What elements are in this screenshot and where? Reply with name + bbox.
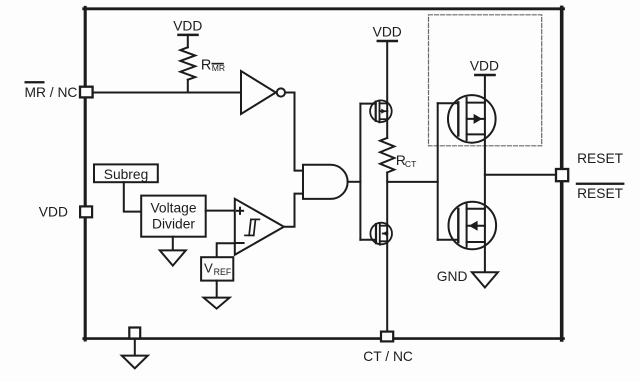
svg-text:RESET: RESET	[577, 186, 624, 201]
gate line (small mosfets)	[359, 104, 361, 240]
svg-text:RESET: RESET	[577, 151, 624, 166]
resistor RMR	[180, 47, 195, 79]
svg-text:CT / NC: CT / NC	[363, 349, 413, 364]
wire RCT junction to big gate line	[387, 181, 438, 183]
wire gate to Q3	[438, 102, 459, 104]
transistor Q1 (small PMOS)	[370, 100, 392, 122]
big gate line	[437, 103, 439, 240]
wire VREF to comparator minus input	[217, 243, 235, 257]
IC boundary box	[84, 7, 564, 340]
wire inverter output to AND input 1	[285, 93, 303, 171]
inverter U1	[241, 71, 276, 114]
wire Subreg to Voltage Divider	[124, 182, 141, 211]
vertical net Q3/Q4 drain-source rail	[484, 75, 486, 272]
VDD symbol above RCT	[373, 24, 402, 41]
transistor Q2 (small NMOS)	[370, 223, 392, 245]
label MR/NC	[25, 81, 78, 100]
resistor RCT	[380, 138, 394, 173]
label RCT	[396, 153, 417, 169]
minus sign	[236, 242, 243, 244]
wire MR pin to inverter input	[93, 92, 241, 94]
svg-text:CT: CT	[405, 159, 417, 169]
hysteresis symbol	[245, 219, 259, 235]
pin GND (bottom-left)	[129, 328, 140, 339]
wire gate to Q4	[438, 239, 459, 241]
transistor Q3 (big PMOS)	[448, 95, 496, 143]
vertical net VDD/RCT/CT	[386, 41, 388, 138]
svg-text:Divider: Divider	[152, 216, 195, 231]
AND gate U3	[303, 165, 348, 199]
wire comparator output to AND input 2	[284, 194, 303, 227]
block VREF	[201, 257, 233, 280]
svg-text:VDD: VDD	[173, 18, 202, 33]
svg-text:MR / NC: MR / NC	[25, 85, 78, 100]
dashed output-stage box	[429, 15, 542, 146]
plus sign	[237, 208, 243, 214]
ground GND below Q4	[472, 272, 498, 287]
wire AND output to gate line	[348, 181, 361, 183]
svg-text:Subreg: Subreg	[104, 167, 149, 182]
pin RESET	[556, 169, 568, 181]
label RMR	[201, 57, 225, 73]
pin CT/NC	[381, 332, 393, 342]
ground below VREF	[216, 281, 218, 298]
ground below bottom-left pin	[134, 340, 136, 356]
wire gate to Q2	[360, 239, 376, 241]
svg-text:R: R	[201, 57, 211, 73]
svg-text:VDD: VDD	[39, 204, 68, 219]
pin VDD (left)	[80, 206, 92, 217]
wire RMR bottom to MR net	[187, 80, 189, 93]
comparator U2	[235, 199, 284, 255]
svg-text:Voltage: Voltage	[150, 201, 196, 216]
svg-text:V: V	[204, 261, 213, 276]
pin MR/NC	[80, 87, 93, 98]
label RESET-bar	[576, 183, 625, 202]
wire gate to Q1	[360, 103, 375, 105]
svg-text:GND: GND	[437, 269, 468, 284]
wire output node to RESET pin	[485, 174, 555, 176]
wire Voltage Divider to comparator + input	[206, 210, 235, 212]
block Subreg	[94, 164, 158, 182]
svg-text:REF: REF	[214, 267, 232, 277]
block Voltage Divider	[141, 196, 206, 237]
transistor Q4 (big NMOS)	[449, 202, 497, 250]
VDD symbol (top-left, above RMR)	[173, 18, 202, 47]
svg-text:VDD: VDD	[470, 59, 499, 74]
svg-text:VDD: VDD	[373, 24, 402, 39]
VDD symbol above Q3	[470, 59, 499, 75]
ground below Voltage Divider	[172, 237, 174, 251]
